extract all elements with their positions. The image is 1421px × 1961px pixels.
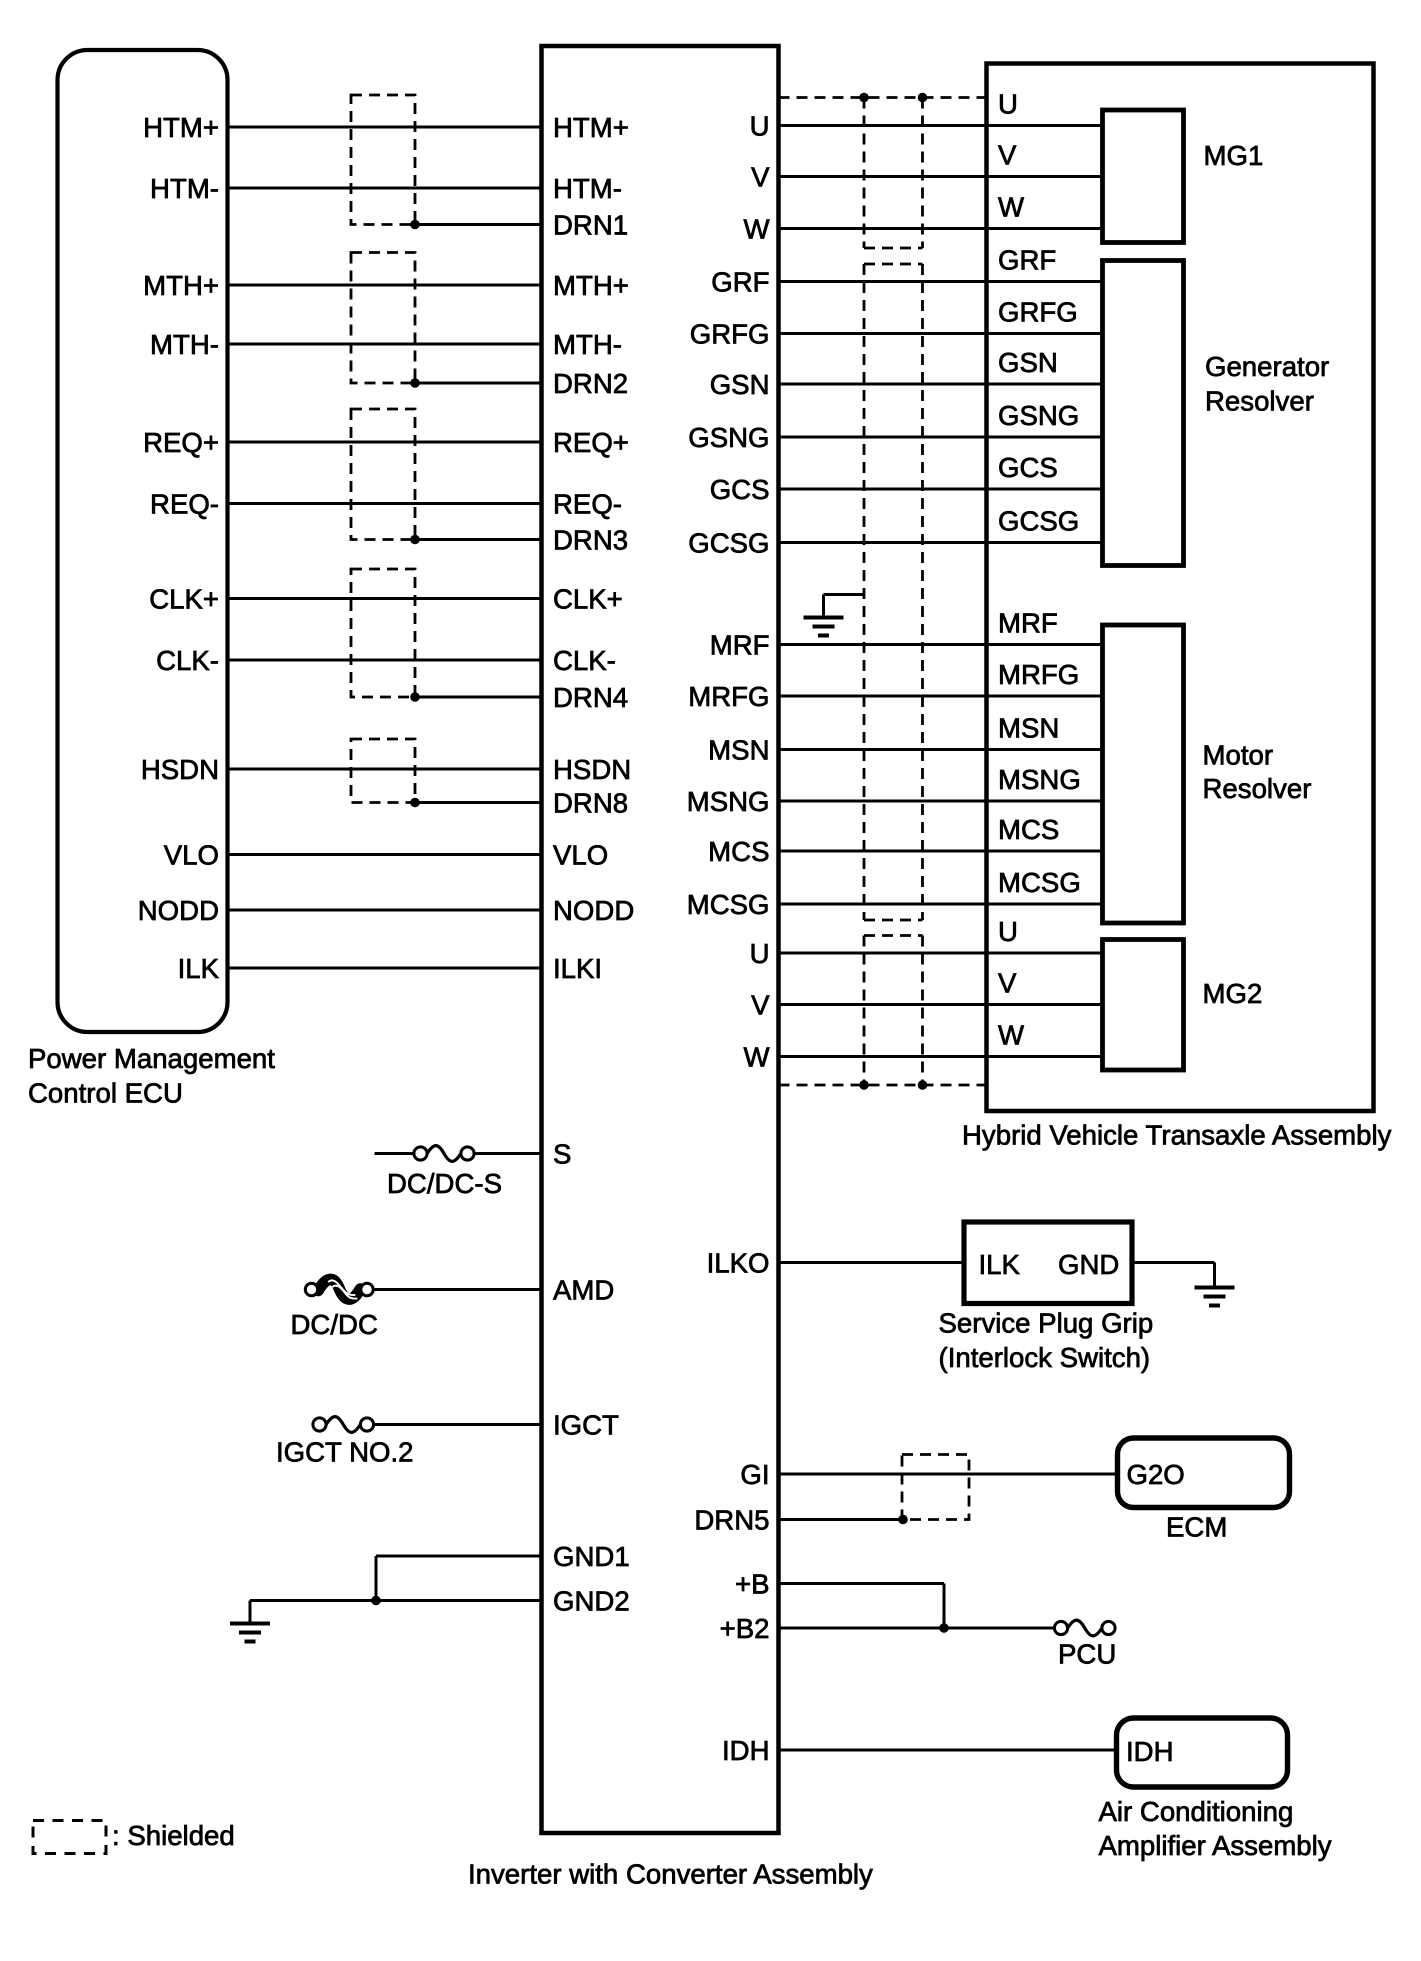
wire IDH to A/C amplifier	[779, 1749, 1117, 1752]
svg-text:ILKO: ILKO	[707, 1248, 770, 1279]
wire CLK- (ECU pin to inverter pin CLK-)	[228, 659, 542, 662]
service plug grip box	[964, 1222, 1132, 1304]
svg-text:Inverter with Converter Assemb: Inverter with Converter Assembly	[468, 1859, 873, 1890]
A/C amplifier IDH box	[1117, 1718, 1288, 1787]
junction dot DRN3 drain	[410, 535, 420, 545]
shield dashed jog 4	[864, 934, 923, 937]
wire HTM- (ECU pin to inverter pin HTM-)	[228, 187, 542, 190]
svg-text:GRF: GRF	[711, 267, 769, 298]
wire +B horizontal	[779, 1582, 945, 1585]
wire ILKO to service plug	[779, 1261, 965, 1264]
wire GCS (inverter to transaxle) row8	[779, 488, 1103, 491]
wire DRN3 drain to inverter	[415, 538, 542, 541]
MG1 motor-generator box	[1103, 110, 1184, 243]
shield (dashed) around pair for DRN3	[351, 409, 415, 540]
shield dashed jog 2	[864, 263, 923, 266]
Power Management Control ECU box	[58, 50, 228, 1032]
svg-text:: Shielded: : Shielded	[112, 1820, 235, 1851]
wire W (inverter to transaxle) row3	[779, 227, 1103, 230]
wire MTH- (ECU pin to inverter pin MTH-)	[228, 343, 542, 346]
svg-text:MSN: MSN	[998, 713, 1059, 744]
generator resolver box	[1103, 261, 1184, 566]
wire GRF (inverter to transaxle) row4	[779, 280, 1103, 283]
svg-text:DRN1: DRN1	[553, 210, 628, 241]
svg-text:REQ-: REQ-	[150, 489, 219, 520]
svg-text:GCS: GCS	[998, 452, 1058, 483]
svg-text:GRFG: GRFG	[998, 297, 1078, 328]
wire GCSG (inverter to transaxle) row9	[779, 541, 1103, 544]
svg-text:Control ECU: Control ECU	[28, 1078, 183, 1109]
svg-text:GND1: GND1	[553, 1541, 630, 1572]
wire CLK+ (ECU pin to inverter pin CLK+)	[228, 597, 542, 600]
svg-text:W: W	[998, 1020, 1024, 1051]
wire MRF (inverter to transaxle) row10	[779, 643, 1103, 646]
wire U (inverter to transaxle) row16	[779, 952, 1103, 955]
svg-text:Resolver: Resolver	[1203, 773, 1312, 804]
shield (dashed) around pair for DRN8	[351, 739, 415, 803]
svg-text:CLK+: CLK+	[553, 584, 623, 615]
svg-text:U: U	[750, 938, 770, 969]
svg-text:MRF: MRF	[710, 630, 770, 661]
svg-text:MRF: MRF	[998, 608, 1058, 639]
svg-text:DRN5: DRN5	[694, 1505, 769, 1536]
svg-text:PCU: PCU	[1058, 1639, 1116, 1670]
svg-text:MRFG: MRFG	[688, 681, 769, 712]
wire V (inverter to transaxle) row2	[779, 175, 1103, 178]
svg-text:MCS: MCS	[998, 814, 1059, 845]
junction dot DRN1 drain	[410, 220, 420, 230]
wire S (fuse to inverter)	[474, 1152, 542, 1155]
svg-text:GCS: GCS	[710, 474, 770, 505]
svg-text:DRN3: DRN3	[553, 525, 628, 556]
wire U (inverter to transaxle) row1	[779, 124, 1103, 127]
svg-text:ILKI: ILKI	[553, 953, 602, 984]
svg-text:MCSG: MCSG	[687, 889, 770, 920]
svg-text:IDH: IDH	[1126, 1736, 1174, 1767]
wire HSDN (ECU pin to inverter pin HSDN)	[228, 768, 542, 771]
svg-text:U: U	[998, 89, 1018, 120]
wire REQ- (ECU pin to inverter pin REQ-)	[228, 502, 542, 505]
svg-text:IDH: IDH	[722, 1735, 770, 1766]
fuse IGCT NO.2	[326, 1417, 360, 1433]
svg-text:GND: GND	[1058, 1249, 1119, 1280]
svg-text:MG2: MG2	[1203, 978, 1263, 1009]
svg-text:GND2: GND2	[553, 1586, 630, 1617]
wire GI to ECM G2O	[779, 1473, 1118, 1476]
wire service plug GND to ground	[1132, 1261, 1215, 1264]
shield dashed vertical right seg2	[921, 264, 924, 920]
fuse PCU	[1068, 1620, 1102, 1636]
svg-text:ILK: ILK	[979, 1249, 1021, 1280]
wire AMD (fusible link to inverter)	[373, 1288, 542, 1291]
wire stub S (DC/DC-S fuse left)	[375, 1152, 414, 1155]
wire MSN (inverter to transaxle) row12	[779, 748, 1103, 751]
svg-text:MSNG: MSNG	[998, 764, 1081, 795]
wire shield ground tap	[824, 593, 865, 596]
wire DRN4 drain to inverter	[415, 696, 542, 699]
svg-text:Hybrid Vehicle Transaxle Assem: Hybrid Vehicle Transaxle Assembly	[962, 1120, 1392, 1151]
wire DRN8 drain to inverter	[415, 801, 542, 804]
svg-text:VLO: VLO	[553, 840, 608, 871]
svg-text:HTM-: HTM-	[150, 173, 219, 204]
svg-text:GCSG: GCSG	[688, 528, 769, 559]
junction dot top-left shield	[859, 93, 869, 103]
wire W (inverter to transaxle) row18	[779, 1055, 1103, 1058]
wire GRFG (inverter to transaxle) row5	[779, 332, 1103, 335]
svg-text:DC/DC: DC/DC	[291, 1309, 378, 1340]
ground (shield)	[822, 595, 825, 618]
svg-text:MG1: MG1	[1204, 140, 1264, 171]
wire DRN2 drain to inverter	[415, 382, 542, 385]
wire MSNG (inverter to transaxle) row13	[779, 800, 1103, 803]
wire GND1 vertical drop	[375, 1556, 378, 1601]
shield dashed vertical left seg2	[863, 264, 866, 920]
svg-text:Amplifier Assembly: Amplifier Assembly	[1099, 1830, 1332, 1861]
shield dashed top rail	[779, 96, 987, 99]
svg-text:V: V	[751, 162, 770, 193]
svg-text:NODD: NODD	[553, 895, 634, 926]
wire MCSG (inverter to transaxle) row15	[779, 903, 1103, 906]
svg-text:GSNG: GSNG	[998, 400, 1079, 431]
motor resolver box	[1103, 625, 1184, 923]
wire HTM+ (ECU pin to inverter pin HTM+)	[228, 126, 542, 129]
svg-text:DRN4: DRN4	[553, 682, 628, 713]
junction dot +B/+B2	[939, 1623, 949, 1633]
svg-text:HTM+: HTM+	[553, 112, 629, 143]
shield dashed vertical left seg3	[863, 936, 866, 1086]
svg-text:NODD: NODD	[138, 895, 219, 926]
ground (service plug)	[1213, 1263, 1216, 1288]
svg-text:S: S	[553, 1139, 571, 1170]
svg-text:IGCT NO.2: IGCT NO.2	[276, 1437, 413, 1468]
svg-text:GSNG: GSNG	[688, 422, 769, 453]
wire IGCT (fuse to inverter)	[374, 1423, 542, 1426]
svg-text:MTH+: MTH+	[553, 270, 629, 301]
svg-text:U: U	[750, 111, 770, 142]
svg-text:Resolver: Resolver	[1205, 386, 1314, 417]
svg-text:W: W	[743, 214, 769, 245]
svg-text:GCSG: GCSG	[998, 506, 1079, 537]
svg-text:IGCT: IGCT	[553, 1410, 619, 1441]
junction dot DRN5 drain	[898, 1515, 908, 1525]
svg-text:+B2: +B2	[720, 1613, 770, 1644]
wire REQ+ (ECU pin to inverter pin REQ+)	[228, 441, 542, 444]
svg-text:+B: +B	[735, 1569, 770, 1600]
svg-text:ILK: ILK	[178, 953, 220, 984]
shield (dashed) around pair for DRN2	[351, 253, 415, 384]
svg-text:MCSG: MCSG	[998, 867, 1081, 898]
hybrid vehicle transaxle assembly box	[987, 64, 1374, 1112]
svg-text:Motor: Motor	[1203, 740, 1274, 771]
svg-text:W: W	[998, 192, 1024, 223]
svg-text:MCS: MCS	[708, 836, 769, 867]
junction dot top-right shield	[918, 93, 928, 103]
svg-text:REQ+: REQ+	[143, 427, 219, 458]
svg-text:GSN: GSN	[710, 369, 770, 400]
svg-text:MTH-: MTH-	[553, 329, 622, 360]
svg-text:HSDN: HSDN	[141, 754, 219, 785]
shield (dashed) around pair for DRN4	[351, 569, 415, 697]
Inverter with Converter Assembly box	[542, 46, 779, 1833]
svg-text:CLK-: CLK-	[553, 645, 616, 676]
wire +B vertical drop	[943, 1584, 946, 1629]
svg-text:MSN: MSN	[708, 735, 769, 766]
svg-text:GI: GI	[740, 1459, 769, 1490]
svg-text:G2O: G2O	[1127, 1459, 1185, 1490]
wire ILK (ECU pin to inverter pin ILKI)	[228, 967, 542, 970]
junction dot DRN8 drain	[410, 798, 420, 808]
MG2 motor-generator box	[1103, 940, 1184, 1071]
wire MRFG (inverter to transaxle) row11	[779, 695, 1103, 698]
junction dot GND1/GND2	[371, 1596, 381, 1606]
shield dashed jog 3	[864, 919, 923, 922]
wire MTH+ (ECU pin to inverter pin MTH+)	[228, 284, 542, 287]
wire GND1 horizontal	[376, 1555, 542, 1558]
svg-text:Generator: Generator	[1205, 351, 1329, 382]
fuse DC/DC-S	[427, 1146, 461, 1162]
svg-text:HTM-: HTM-	[553, 173, 622, 204]
wire DRN1 drain to inverter	[415, 223, 542, 226]
shield (dashed) around pair for DRN1	[351, 95, 415, 225]
svg-text:CLK-: CLK-	[156, 645, 219, 676]
junction dot DRN4 drain	[410, 692, 420, 702]
svg-text:REQ-: REQ-	[553, 489, 622, 520]
shield dashed vertical right seg1	[921, 98, 924, 249]
svg-text:VLO: VLO	[164, 840, 219, 871]
shield dashed bottom rail	[779, 1084, 987, 1087]
svg-text:MSNG: MSNG	[687, 786, 770, 817]
ground (inverter GND)	[249, 1601, 252, 1624]
svg-text:ECM: ECM	[1166, 1512, 1227, 1543]
svg-text:V: V	[998, 140, 1017, 171]
wire GND2 horizontal	[250, 1599, 542, 1602]
svg-text:U: U	[998, 916, 1018, 947]
wire MCS (inverter to transaxle) row14	[779, 850, 1103, 853]
svg-text:MTH+: MTH+	[143, 270, 219, 301]
shield dashed vertical right seg3	[921, 936, 924, 1086]
svg-text:W: W	[743, 1042, 769, 1073]
wire V (inverter to transaxle) row17	[779, 1003, 1103, 1006]
wire +B2 to PCU fuse	[779, 1627, 1055, 1630]
svg-text:DRN8: DRN8	[553, 788, 628, 819]
svg-text:V: V	[998, 968, 1017, 999]
fusible link DC/DC	[318, 1279, 360, 1299]
svg-text:CLK+: CLK+	[149, 584, 219, 615]
wire VLO (ECU pin to inverter pin VLO)	[228, 853, 542, 856]
shield dashed jog 1	[864, 247, 923, 250]
svg-text:Air Conditioning: Air Conditioning	[1099, 1796, 1294, 1827]
shield dashed vertical left seg1	[863, 98, 866, 249]
svg-text:MRFG: MRFG	[998, 659, 1079, 690]
svg-text:REQ+: REQ+	[553, 427, 629, 458]
svg-text:AMD: AMD	[553, 1275, 614, 1306]
wire GSN (inverter to transaxle) row6	[779, 383, 1103, 386]
svg-text:Service Plug Grip: Service Plug Grip	[939, 1308, 1154, 1339]
ECM G2O box	[1118, 1438, 1290, 1508]
junction dot bottom-right shield	[918, 1080, 928, 1090]
svg-text:HTM+: HTM+	[143, 112, 219, 143]
svg-text:MTH-: MTH-	[150, 329, 219, 360]
svg-text:DRN2: DRN2	[553, 368, 628, 399]
svg-text:V: V	[751, 990, 770, 1021]
svg-text:(Interlock Switch): (Interlock Switch)	[939, 1342, 1151, 1373]
wire DRN5 drain	[779, 1518, 904, 1521]
shield (dashed) around GI wire	[902, 1455, 969, 1520]
svg-text:GSN: GSN	[998, 347, 1058, 378]
junction dot bottom-left shield	[859, 1080, 869, 1090]
wire GSNG (inverter to transaxle) row7	[779, 436, 1103, 439]
junction dot DRN2 drain	[410, 378, 420, 388]
svg-text:Power Management: Power Management	[28, 1043, 275, 1074]
svg-text:DC/DC-S: DC/DC-S	[387, 1168, 502, 1199]
svg-text:GRFG: GRFG	[690, 319, 770, 350]
legend shield sample (dashed)	[33, 1821, 106, 1854]
wire NODD (ECU pin to inverter pin NODD)	[228, 909, 542, 912]
svg-text:GRF: GRF	[998, 245, 1056, 276]
svg-text:HSDN: HSDN	[553, 754, 631, 785]
